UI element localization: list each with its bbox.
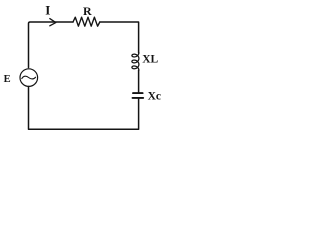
svg-text:XL: XL: [142, 54, 158, 66]
capacitor Xc bottom plate: [133, 97, 144, 99]
AC source E circle: [20, 69, 38, 87]
svg-text:Xc: Xc: [148, 91, 161, 103]
svg-text:I: I: [45, 3, 50, 18]
resistor R zigzag: [73, 17, 100, 26]
sine wave inside source: [22, 76, 36, 79]
wire top: resistor to top-right corner: [100, 22, 139, 53]
wire: capacitor to bottom-right corner, bottom wire, left wire up to source: [29, 87, 139, 130]
capacitor Xc top plate: [133, 92, 143, 94]
inductor XL coil: [132, 53, 139, 71]
svg-text:R: R: [83, 4, 92, 18]
wire top: left corner to resistor: [29, 22, 74, 68]
svg-text:E: E: [4, 74, 11, 85]
current arrow on top wire: [50, 19, 56, 26]
wire: coil to capacitor: [138, 70, 140, 92]
